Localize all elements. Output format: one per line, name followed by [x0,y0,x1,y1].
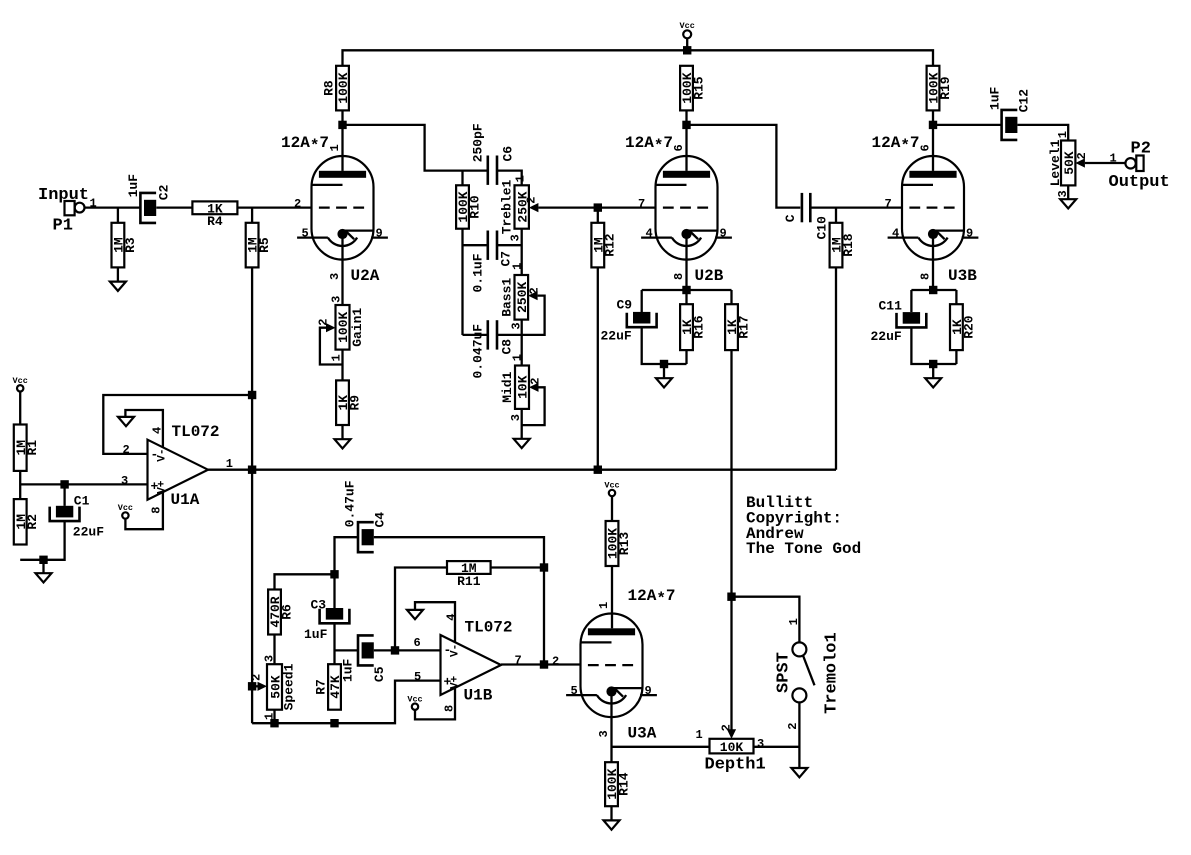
wire: R11 to output node [491,566,544,568]
wire: Vcc stub [686,38,688,50]
wire: Bass pin3 to Mid pin1 [521,320,523,366]
wire: R12 to bias line [597,267,599,469]
svg-text:0.047uF: 0.047uF [470,324,485,379]
Gain1 wiper arrow [326,323,336,332]
vacuum tube triode U3A [552,587,676,743]
capacitor C6 [488,156,497,185]
wire: Level1 pin3 to ground [1067,185,1069,199]
wire: Treble1 wiper to U2B grid [538,206,655,208]
wire: C5 to U1B pin6 [374,649,441,651]
svg-text:U1B: U1B [464,686,493,704]
svg-text:R1: R1 [25,440,40,456]
wire: C4 to U1B output node [374,537,544,664]
ground (U3B cathode) [925,378,941,387]
ground (tremolo) [791,768,807,777]
svg-text:5: 5 [414,670,421,684]
svg-text:8: 8 [672,273,686,280]
svg-text:2: 2 [786,723,800,730]
resistor R10 [456,185,482,228]
resistor R20 [950,304,976,350]
svg-text:V+: V+ [157,480,169,494]
svg-text:R17: R17 [736,315,751,338]
ground (U2B cathode) [656,378,672,387]
connector P1 (Input jack) [38,186,97,236]
potentiometer Level1 [1048,131,1089,198]
svg-text:Vcc: Vcc [604,481,619,491]
ground (U1A pin4) [118,417,134,426]
resistor R5 [246,223,272,268]
svg-text:9: 9 [376,227,383,241]
wire: Gain1 to R9 [341,350,343,381]
junction: R7 bottom [330,719,338,727]
wire: U3B cathode down [932,260,934,290]
svg-text:2: 2 [529,377,543,384]
svg-text:R2: R2 [25,514,40,530]
svg-text:4: 4 [445,613,459,620]
wire: R16 to ground rail [685,350,687,364]
wire: Level1 wiper to P2 [1085,162,1126,164]
svg-text:R13: R13 [617,532,632,556]
svg-text:1: 1 [1056,131,1070,138]
svg-text:3: 3 [328,273,342,280]
svg-text:U2A: U2A [351,267,380,285]
resistor R11 [447,561,491,589]
ground (R9) [335,439,351,448]
svg-text:R3: R3 [123,237,138,253]
svg-text:The Tone God: The Tone God [746,540,861,558]
svg-text:1: 1 [513,175,527,182]
svg-text:C8: C8 [499,339,514,355]
svg-text:22uF: 22uF [73,524,104,539]
wire: R3 to ground [117,267,119,281]
svg-text:3: 3 [263,655,277,662]
wire: U1B pin8 to Vcc [415,688,455,720]
junction: R12 tap [594,203,602,211]
Bass1 wiper arrow [528,291,538,300]
svg-text:U2B: U2B [695,267,724,285]
op-amp U1A (TL072) [121,423,233,514]
svg-text:U3A: U3A [628,725,657,743]
svg-text:R19: R19 [938,76,953,100]
svg-text:1: 1 [1110,152,1117,166]
svg-text:250K: 250K [516,191,531,222]
svg-text:1uF: 1uF [126,174,141,198]
svg-text:R14: R14 [616,772,631,796]
resistor R15 [680,66,706,111]
svg-text:8: 8 [919,273,933,280]
svg-text:2: 2 [294,197,301,211]
wire: cathode node across [911,289,956,291]
svg-text:R18: R18 [841,233,856,257]
potentiometer Gain1 [316,296,365,362]
svg-text:R9: R9 [347,395,362,411]
svg-text:R15: R15 [691,76,706,100]
wire: C3 to R7 [333,623,335,664]
svg-text:7: 7 [885,197,892,211]
svg-text:1: 1 [328,144,342,151]
wire: Bass1 wiper to pin3 [522,296,545,335]
wire: grid node to R5 [251,208,253,223]
svg-text:R8: R8 [322,80,337,96]
svg-text:100K: 100K [336,72,351,103]
svg-text:3: 3 [329,296,343,303]
capacitor C4 [358,522,374,552]
svg-text:R12: R12 [603,233,618,257]
wire: bias line to Speed1 wiper [252,685,258,687]
wire: depth node to switch pin1 [732,597,800,643]
junction: Vcc rail at supply [683,46,691,54]
wire: R19 to U3B plate [932,110,934,170]
wire: R10 to C7/C8 left [461,229,463,335]
svg-text:250K: 250K [515,282,530,313]
wire: R17 to tremolo switch node [730,350,732,597]
junction: R11/C4 output node [540,563,548,571]
svg-text:Bass1: Bass1 [500,278,515,317]
svg-text:Vcc: Vcc [118,503,133,513]
svg-text:12A*7: 12A*7 [281,134,329,155]
svg-text:U3B: U3B [948,267,977,285]
Vcc power symbol (main rail) [680,21,695,38]
wire: Speed1 to bottom rail [273,710,275,724]
wire: C6 to Treble1 [496,171,522,186]
wire: C11 to R20 bottom [911,327,956,364]
Treble1 wiper arrow [529,203,539,212]
svg-text:12A*7: 12A*7 [628,587,676,608]
Depth1 wiper arrow [727,729,736,739]
capacitor C3 [320,608,350,623]
ground (R14) [604,820,620,829]
svg-text:R10: R10 [467,195,482,219]
svg-text:V-: V- [450,644,462,657]
wire: C2 to R4 [156,206,192,208]
wire: Vcc rail across plate resistors [343,50,934,66]
wire: to ground [932,364,934,378]
svg-text:R6: R6 [279,604,294,620]
svg-text:3: 3 [757,737,764,751]
svg-text:8: 8 [150,506,164,513]
resistor R18 [830,223,856,268]
svg-text:5: 5 [571,684,578,698]
svg-text:6: 6 [414,636,421,650]
capacitor C1 [50,506,80,521]
wire: node to R10 [461,171,463,186]
wire: Mid pin3 to ground [521,409,523,439]
Vcc power symbol (R13) [604,481,619,497]
op-amp U1B (TL072) [414,613,522,712]
junction: C1 tap [60,480,68,488]
wire: to C1 [63,484,65,506]
svg-text:Vcc: Vcc [680,21,695,31]
svg-text:Vcc: Vcc [407,694,422,704]
svg-text:Tremolo1: Tremolo1 [822,632,841,714]
wire: U1A feedback loop [103,395,252,454]
svg-text:250pF: 250pF [470,123,485,162]
svg-text:12A*7: 12A*7 [872,134,920,155]
svg-text:3: 3 [597,730,611,737]
junction: R6/C4/C3 node [330,570,338,578]
svg-text:C1: C1 [74,494,90,509]
wire: R1 to R2 [19,471,21,499]
junction: bias ground node [39,556,47,564]
Mid1 wiper arrow [529,383,539,392]
svg-text:1uF: 1uF [304,627,328,642]
svg-text:V+: V+ [450,675,462,689]
svg-text:1uF: 1uF [341,658,356,682]
svg-text:22uF: 22uF [871,329,902,344]
junction: Speed1 wiper on bias line [248,682,256,690]
svg-text:U1A: U1A [171,491,200,509]
svg-text:22uF: 22uF [601,329,632,344]
svg-text:Depth1: Depth1 [705,756,766,775]
svg-text:TL072: TL072 [172,423,220,441]
ground (R3) [110,282,126,291]
wire: left to C7 [463,244,488,246]
wire: depth node to Depth1 wiper [730,597,732,730]
svg-text:100K: 100K [336,312,351,343]
svg-text:1: 1 [510,354,524,361]
svg-text:7: 7 [638,197,645,211]
wire: input to R3 [117,208,119,223]
wire: Vcc to R13 [611,496,613,521]
wire: Mid1 wiper to pin3 [522,387,545,425]
wire: node down to C3 [333,574,335,608]
svg-text:1: 1 [597,602,611,609]
svg-text:0.1uF: 0.1uF [470,253,485,292]
svg-text:R7: R7 [314,679,329,695]
svg-text:P1: P1 [53,217,73,236]
svg-text:3: 3 [121,474,128,488]
switch SPST Tremolo1 [775,618,842,730]
wire: C12 to Level1 [1018,125,1069,141]
svg-text:Treble1: Treble1 [500,179,515,234]
wire: R8 to U2A plate [341,110,343,170]
wire: U1B output to U3A grid [501,663,581,665]
junction: R11 on pin6 net [391,646,399,654]
svg-text:1: 1 [787,618,801,625]
junction: U2B cathode node [682,286,690,294]
svg-text:2: 2 [525,196,539,203]
wire: R14 to ground [610,806,612,820]
Level1 wiper arrow [1075,158,1085,167]
resistor R2 [14,499,40,544]
potentiometer Speed1 [250,655,297,720]
svg-text:9: 9 [645,684,652,698]
junction: tremolo depth node [727,593,735,601]
svg-text:Speed1: Speed1 [282,663,297,710]
wire: Treble pin3 to Bass pin1 [521,229,523,275]
wire: node up to C4 [335,537,359,574]
svg-text:R16: R16 [691,315,706,339]
svg-text:5: 5 [302,227,309,241]
wire: U3A cathode down [610,717,612,762]
capacitor C10 [802,193,810,222]
wire: U3B plate to C12 [933,124,1002,126]
svg-text:Output: Output [1109,173,1170,192]
wire: R20 to ground node [955,350,957,364]
resistor R6 [268,590,294,635]
resistor R4 [192,201,237,229]
svg-text:2: 2 [552,655,559,669]
wire: switch pin2 down [798,702,800,768]
junction: Speed1 bottom [270,719,278,727]
wire: Gain1 wiper to pin1 [320,328,343,365]
capacitor C7 [488,231,497,260]
svg-text:R4: R4 [207,214,223,229]
wire: C1 to R2 bottom [20,521,64,560]
vacuum tube triode U2B [625,134,732,285]
wire: R9 to ground [341,425,343,439]
wire: C10 to U3B grid [810,206,902,208]
svg-text:Vcc: Vcc [13,376,28,386]
svg-text:4: 4 [892,227,899,241]
svg-text:C9: C9 [617,298,633,313]
resistor R19 [927,66,953,111]
svg-text:1: 1 [329,354,343,361]
svg-text:V-: V- [157,448,169,461]
svg-text:C4: C4 [373,512,388,528]
vacuum tube triode U3B [872,134,979,285]
wire: to ground [42,560,44,573]
svg-text:1: 1 [696,728,703,742]
junction: U3B cathode node [929,286,937,294]
wire: U2A cathode to Gain1 [341,260,343,305]
resistor R3 [112,223,138,268]
capacitor C2 [140,193,156,223]
wire: R13 to U3A plate [611,566,613,628]
svg-text:P2: P2 [1131,140,1151,159]
wire: P1 to C2 [85,206,141,208]
wire: U1B pin4 to ground [415,602,455,642]
svg-text:C5: C5 [372,666,387,682]
junction: bias line cross [248,466,256,474]
junction: R12 bias tap [594,466,602,474]
ground (Mid1) [514,439,530,448]
svg-text:C6: C6 [500,146,515,162]
wire: R6 to Speed1 [273,635,275,665]
svg-text:Gain1: Gain1 [350,308,365,347]
junction: feedback to bias line [248,391,256,399]
svg-text:1: 1 [511,263,525,270]
Vcc power symbol (U1A pin8) [118,503,133,519]
potentiometer Bass1 [500,263,542,330]
junction: cathode ground node [660,360,668,368]
resistor R12 [591,223,617,268]
resistor R17 [725,304,751,350]
wire: to R18 [835,208,837,223]
wire: U1A pin4 to ground [125,410,162,448]
ground (Level1) [1060,199,1076,208]
resistor R1 [14,425,40,471]
resistor R14 [605,762,631,806]
junction: U3B cathode ground node [929,360,937,368]
resistor R8 [322,66,352,111]
capacitor C12 [1002,110,1018,140]
svg-text:C3: C3 [311,597,327,612]
ground (U1B pin4) [407,610,423,619]
wire: Depth1 pin3 to switch [754,746,800,748]
svg-text:C: C [783,214,798,222]
wire: R5 down bias line [251,267,253,723]
svg-text:C11: C11 [879,299,903,314]
svg-text:2: 2 [1075,152,1089,159]
vacuum tube triode U2A [281,134,388,285]
wire: U1A pin8 to Vcc [125,492,162,529]
wire: node to R6 [275,574,335,589]
potentiometer Mid1 [500,354,543,421]
wire: cathode node across [642,289,732,291]
svg-text:2: 2 [250,674,264,681]
capacitor C9 [627,312,657,327]
svg-text:4: 4 [646,227,653,241]
resistor R13 [606,521,632,566]
wire: U2B plate to C10 [687,125,801,208]
capacitor C5 [358,635,374,665]
resistor R16 [680,304,706,350]
wire: R15 to U2B plate [685,110,687,170]
wire: to R17 [730,290,732,304]
wire: bottom rail to U1B pin5 [252,681,440,724]
svg-text:6: 6 [919,144,933,151]
svg-text:R20: R20 [961,315,976,339]
wire: U1A output bias distribution [208,469,836,471]
wire: U3A cathode to Depth1 [612,746,710,748]
capacitor C11 [897,312,927,327]
Vcc power symbol (U1B pin8) [407,694,422,710]
junction: U2A plate node [338,121,346,129]
wire: to C9 [641,290,643,312]
svg-text:0.47uF: 0.47uF [343,480,358,527]
potentiometer Depth1 [696,724,766,774]
junction: U3B plate node [929,121,937,129]
wire: to R20 [955,290,957,304]
svg-text:6: 6 [672,144,686,151]
svg-text:10K: 10K [720,740,744,755]
capacitor C8 [488,320,497,349]
svg-text:Level1: Level1 [1048,139,1063,186]
svg-text:9: 9 [966,227,973,241]
Speed1 wiper arrow [258,682,268,691]
Vcc power symbol (U1A bias) [13,376,28,392]
wire: R4 to U2A grid [237,206,311,208]
svg-text:TL072: TL072 [465,618,513,636]
resistor R7 [314,664,344,710]
svg-text:Input: Input [38,186,89,205]
wire: left to C8 [463,334,488,336]
junction: feedback/output [540,660,548,668]
potentiometer Treble1 [500,175,539,241]
wire: C3/R7 node to C5 [335,649,359,651]
wire: R11 to U1B pin6 [395,568,447,651]
wire: to ground [663,364,665,378]
resistor R9 [336,380,362,425]
wire: C9 to R16 bottom [642,327,687,364]
connector P2 (Output jack) [1109,140,1170,193]
svg-text:Mid1: Mid1 [500,371,515,402]
text: copyright block [746,494,861,558]
wire: to C11 [910,290,912,312]
ground (bias divider) [36,573,52,582]
svg-text:C12: C12 [1016,89,1031,113]
svg-text:R11: R11 [457,574,481,589]
wire: C8 to Bass/Mid node [496,334,522,336]
wire: bias node to U1A pin3 [20,483,147,485]
wire: U2A plate to tone stack [343,125,488,171]
svg-text:SPST: SPST [775,652,794,693]
svg-text:C2: C2 [157,184,172,200]
svg-text:9: 9 [720,227,727,241]
svg-text:R5: R5 [257,237,272,253]
wire: Vcc to R1 [19,392,21,425]
